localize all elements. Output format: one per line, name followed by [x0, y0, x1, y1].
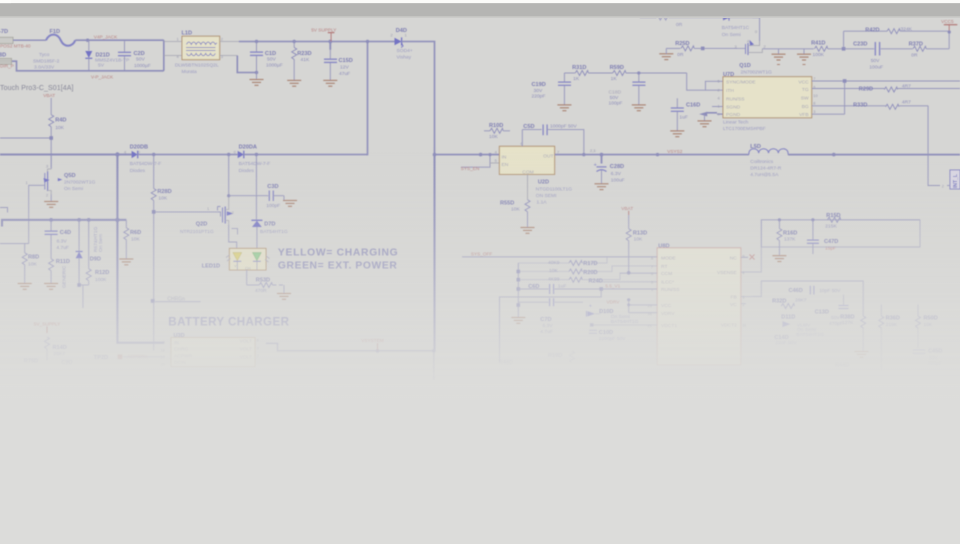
svg-text:220pF: 220pF — [532, 94, 546, 100]
svg-text:4: 4 — [718, 96, 721, 101]
svg-text:ITH: ITH — [726, 88, 734, 94]
svg-text:V4P_JACK: V4P_JACK — [94, 34, 118, 39]
svg-text:BAT54HT1C: BAT54HT1C — [722, 25, 750, 31]
power flag 5V SUPPLY — [311, 27, 337, 41]
svg-text:R41D: R41D — [811, 40, 825, 46]
diode D11D — [781, 314, 824, 338]
svg-text:2N7002WT1G: 2N7002WT1G — [741, 69, 772, 75]
svg-text:4R7: 4R7 — [902, 100, 911, 106]
charger IC U3D — [161, 333, 259, 367]
svg-text:2: 2 — [764, 44, 766, 49]
node V4P_JACK — [94, 34, 118, 39]
capacitor C23D — [844, 42, 913, 71]
net SYS_EN — [461, 153, 500, 171]
svg-text:8: 8 — [813, 101, 815, 106]
svg-text:R29D: R29D — [859, 87, 873, 93]
wire Q5D gate rail — [0, 243, 29, 245]
svg-text:Touch Pro3-C_S01[4A]: Touch Pro3-C_S01[4A] — [0, 85, 74, 92]
capacitor C19D — [532, 73, 572, 111]
capacitor C3D — [229, 184, 284, 209]
wires VCC VDRV pins — [627, 303, 657, 312]
lower bus wire — [2, 218, 126, 227]
svg-text:L1D: L1D — [182, 31, 193, 37]
svg-text:50V: 50V — [871, 58, 880, 64]
svg-text:1000µF: 1000µF — [134, 63, 151, 69]
resistor R17D — [518, 257, 607, 267]
wire D20DB to D20DA — [138, 153, 238, 156]
svg-text:TG: TG — [802, 87, 809, 93]
svg-text:SMD185F-2: SMD185F-2 — [33, 58, 60, 64]
ground right of C3D — [283, 196, 297, 207]
resistor R12D — [77, 220, 109, 308]
svg-text:3.0A/33V: 3.0A/33V — [34, 65, 55, 71]
svg-text:PGND: PGND — [726, 112, 741, 118]
transistor Q5D — [26, 155, 96, 244]
svg-text:SOD4+: SOD4+ — [397, 48, 413, 54]
inductor L5D — [749, 144, 788, 178]
wire R33D drop to sense pin — [928, 106, 944, 189]
svg-text:Q1D: Q1D — [739, 63, 751, 69]
svg-text:Vishay: Vishay — [397, 54, 412, 60]
svg-text:1: 1 — [405, 33, 407, 38]
wire stub left edge — [0, 208, 8, 213]
wire fuse to L1D — [75, 39, 163, 42]
transistor Q2D — [180, 196, 238, 235]
wire Q2D drain from bus — [227, 155, 230, 198]
riser 5V to D20 rail — [367, 42, 369, 154]
svg-text:1K: 1K — [611, 76, 618, 82]
svg-text:1uF: 1uF — [679, 115, 687, 121]
resistor R41D — [811, 40, 845, 57]
regulator U2D — [495, 141, 573, 206]
svg-text:0R: 0R — [677, 52, 684, 58]
title BATTERY CHARGER — [168, 315, 289, 328]
svg-text:4: 4 — [177, 54, 180, 59]
wire U7D VCC row — [812, 79, 960, 83]
capacitor C5D — [522, 123, 585, 156]
capacitor C13D — [815, 295, 849, 327]
wire Q1D to R41D with grounds — [762, 49, 814, 65]
svg-text:50V: 50V — [136, 57, 145, 63]
svg-text:4: 4 — [747, 39, 750, 44]
resistor R6D — [119, 220, 141, 265]
svg-text:1: 1 — [177, 37, 179, 42]
wire L1D pin3 return rail — [220, 56, 259, 75]
svg-text:C18D: C18D — [609, 89, 622, 95]
resistor R23D — [287, 42, 311, 87]
resistor R50D — [916, 305, 938, 349]
svg-text:1000µF: 1000µF — [266, 63, 283, 69]
svg-text:5: 5 — [718, 79, 720, 84]
capacitor C45D — [913, 349, 942, 367]
resistor R15D — [825, 213, 840, 229]
compensation network on FB/VC — [741, 281, 863, 316]
resistor R16D — [772, 220, 797, 262]
resistor R24D — [518, 273, 657, 284]
svg-text:R42D: R42D — [865, 28, 879, 34]
svg-text:5V: 5V — [98, 62, 105, 68]
net SS_V1 — [596, 282, 657, 289]
wire bottom rail — [12, 61, 164, 71]
svg-text:C16D: C16D — [686, 103, 700, 109]
connector J2 (left edge, V- pin) — [0, 52, 14, 68]
svg-text:DLW5BTN102SQ2L: DLW5BTN102SQ2L — [175, 63, 219, 69]
svg-text:VFB: VFB — [799, 112, 809, 118]
svg-text:C2D: C2D — [134, 51, 145, 57]
resistor R28D — [151, 155, 172, 301]
svg-text:C23D: C23D — [853, 42, 867, 48]
svg-text:VCC: VCC — [798, 80, 809, 86]
svg-text:SYNC/MODE: SYNC/MODE — [726, 79, 756, 85]
svg-text:12V: 12V — [340, 65, 349, 71]
ground below C1D — [250, 73, 264, 86]
svg-text:DIR_P: DIR_P — [0, 63, 14, 68]
resistor R26D top 0R — [640, 15, 753, 28]
svg-text:3: 3 — [221, 54, 223, 59]
resistor R19D faint — [548, 351, 575, 363]
wire VDCT1 — [590, 323, 657, 326]
svg-text:V-P_JACK: V-P_JACK — [91, 75, 114, 80]
svg-text:R23D: R23D — [297, 51, 311, 57]
svg-text:BG: BG — [802, 104, 809, 110]
svg-text:2: 2 — [718, 88, 720, 93]
resistor R36D — [879, 305, 900, 371]
left rail for divider — [511, 263, 525, 323]
svg-text:2: 2 — [221, 37, 223, 42]
svg-text:SGND: SGND — [726, 105, 741, 111]
svg-text:100K: 100K — [813, 52, 825, 58]
wire stub left at R4D node — [0, 136, 53, 140]
wire VSYSTEM rail — [266, 343, 436, 380]
resistor R31D — [564, 65, 612, 82]
diode D17D BAT54HT1C — [722, 15, 760, 42]
diode D7D — [251, 155, 287, 250]
resistor R8D — [18, 244, 40, 290]
inductor L1D common-mode choke — [175, 31, 223, 75]
svg-text:47uF: 47uF — [339, 71, 350, 77]
capacitor C6D — [518, 284, 601, 294]
resistor R20D — [518, 266, 657, 276]
resistor R44D faint — [835, 363, 849, 369]
capacitor C2D — [118, 40, 151, 71]
capacitor C7D — [518, 298, 583, 335]
connector J1 (left edge, V+ pin) — [0, 29, 31, 49]
resistor R14D — [45, 337, 67, 360]
resistor R4D — [49, 115, 67, 168]
capacitor C16D — [670, 98, 700, 136]
svg-text:-7D: -7D — [0, 29, 8, 35]
svg-text:2: 2 — [391, 33, 393, 38]
pin NC no-connect X — [741, 255, 755, 260]
resistor R42D — [844, 27, 950, 49]
resistor R10D — [484, 123, 510, 140]
capacitor C46D — [789, 286, 842, 295]
svg-text:POS2 MTB-40: POS2 MTB-40 — [0, 44, 31, 49]
wire L5D to right edge — [788, 153, 960, 157]
node CHRGn — [151, 296, 201, 350]
resistor R32D — [772, 298, 807, 309]
net VSYSTEM — [361, 338, 383, 351]
resistor R59D — [610, 65, 687, 82]
connector right edge sense — [947, 170, 960, 189]
wire D20DA to riser — [244, 153, 368, 156]
sheet title Touch Pro3-C — [0, 85, 74, 92]
LED1D dual LED — [202, 248, 270, 270]
resistor R37D — [909, 41, 950, 58]
arrow to PGND and ground — [698, 107, 724, 127]
fuse F1D — [33, 29, 75, 70]
svg-text:100uF: 100uF — [869, 64, 883, 70]
wire VFB tie — [812, 81, 845, 114]
svg-text:9: 9 — [718, 112, 720, 117]
svg-text:41K: 41K — [301, 57, 310, 63]
svg-text:0R: 0R — [676, 22, 683, 28]
svg-text:On Semi: On Semi — [722, 32, 741, 38]
controller U8D — [648, 243, 747, 364]
resistor R11D — [44, 259, 70, 290]
svg-text:1K: 1K — [573, 76, 580, 82]
ground below Q5D — [44, 195, 58, 208]
capacitor C15D — [323, 42, 353, 87]
net SYS_OFF / MODE wire — [462, 252, 657, 257]
wire Q2D to LED yellow anode — [229, 225, 237, 250]
trunk riser from D4D down — [434, 155, 436, 351]
svg-text:Tyco: Tyco — [39, 52, 50, 58]
svg-text:100pF: 100pF — [609, 101, 623, 107]
wire sense rail to VSENSE — [741, 220, 920, 272]
capacitor C28D polarized — [594, 153, 625, 190]
svg-text:C15D: C15D — [339, 58, 353, 64]
toolbar band — [0, 0, 960, 18]
capacitor C14D — [774, 335, 797, 346]
svg-text:3: 3 — [735, 44, 737, 49]
net 5V_SUPPLY lower — [34, 321, 61, 333]
LED caption text — [278, 247, 399, 271]
diode D20DA — [234, 145, 271, 174]
svg-text:10: 10 — [813, 93, 818, 98]
wire RUN/SS — [500, 287, 658, 362]
svg-text:R37D: R37D — [909, 41, 923, 47]
svg-text:SW: SW — [801, 95, 809, 101]
svg-text:3: 3 — [813, 109, 815, 114]
wire jog to U7D ITH — [687, 73, 723, 90]
svg-text:30V: 30V — [534, 88, 543, 94]
svg-text:VBAT: VBAT — [43, 93, 55, 98]
resistor R13D — [620, 215, 657, 275]
wire D4D to riser — [402, 42, 435, 155]
net VDRV flag — [607, 298, 631, 313]
trunk VBAT down to charger — [117, 155, 164, 343]
wire gate of Q2D — [154, 206, 218, 212]
power flag VCC5 — [941, 19, 957, 49]
main rail into U2D — [433, 153, 500, 157]
net VBAT above R13D — [621, 206, 633, 215]
resistor R33D — [812, 100, 928, 110]
wire U2D OUT to VSYS rail — [555, 148, 602, 154]
svg-text:324K: 324K — [901, 27, 913, 33]
OVERLAY — [0, 120, 960, 544]
zener diode D21D — [85, 40, 129, 71]
op-amp controller U7D — [718, 72, 819, 132]
wire to L5D with node VSYS2 — [602, 149, 749, 156]
svg-text:1: 1 — [718, 104, 720, 109]
svg-text:0R: 0R — [911, 52, 918, 58]
svg-text:50V: 50V — [267, 57, 276, 63]
svg-text:RUN/SS: RUN/SS — [726, 96, 745, 102]
svg-text:R33D: R33D — [853, 103, 867, 109]
diode D10D — [587, 303, 639, 324]
svg-text:8D: 8D — [0, 52, 6, 58]
diode D4D — [391, 28, 413, 60]
wire riser into L1D — [164, 40, 182, 71]
capacitor C18D — [609, 73, 646, 111]
VBAT bus wire — [0, 152, 132, 156]
transistor Q1D — [735, 39, 773, 82]
diode D9D — [76, 220, 104, 285]
svg-text:R59D: R59D — [610, 65, 624, 71]
svg-text:C19D: C19D — [532, 82, 546, 88]
resistor R46D faint — [499, 360, 513, 366]
wire L1D pin2 to 5V rail — [220, 40, 395, 44]
svg-text:7: 7 — [813, 76, 815, 81]
capacitor C4D — [45, 220, 71, 259]
net VBAT — [43, 93, 55, 115]
sense divider R15D R16D C47D — [761, 218, 920, 247]
diode D20DB — [124, 145, 161, 174]
capacitor C10D — [589, 330, 626, 342]
resistor R55D — [500, 174, 535, 233]
capacitor C47D — [807, 220, 838, 254]
svg-text:5V SUPPLY: 5V SUPPLY — [311, 27, 337, 32]
svg-text:0: 0 — [755, 29, 758, 34]
svg-text:50V: 50V — [610, 95, 619, 101]
wire J1 to fuse — [13, 39, 46, 41]
svg-text:VCC5: VCC5 — [941, 19, 954, 24]
resistor R29D — [812, 83, 960, 92]
svg-text:Murata: Murata — [182, 69, 198, 75]
svg-text:R31D: R31D — [572, 65, 586, 71]
resistor R38D — [840, 314, 868, 357]
test point TP2D — [94, 354, 165, 361]
resistor R75D faded — [24, 359, 73, 366]
node V-P_JACK — [91, 75, 114, 80]
resistor R25D — [659, 41, 737, 60]
capacitor C1D — [250, 42, 283, 73]
svg-text:C1D: C1D — [265, 51, 276, 57]
resistor R53D — [247, 270, 291, 299]
